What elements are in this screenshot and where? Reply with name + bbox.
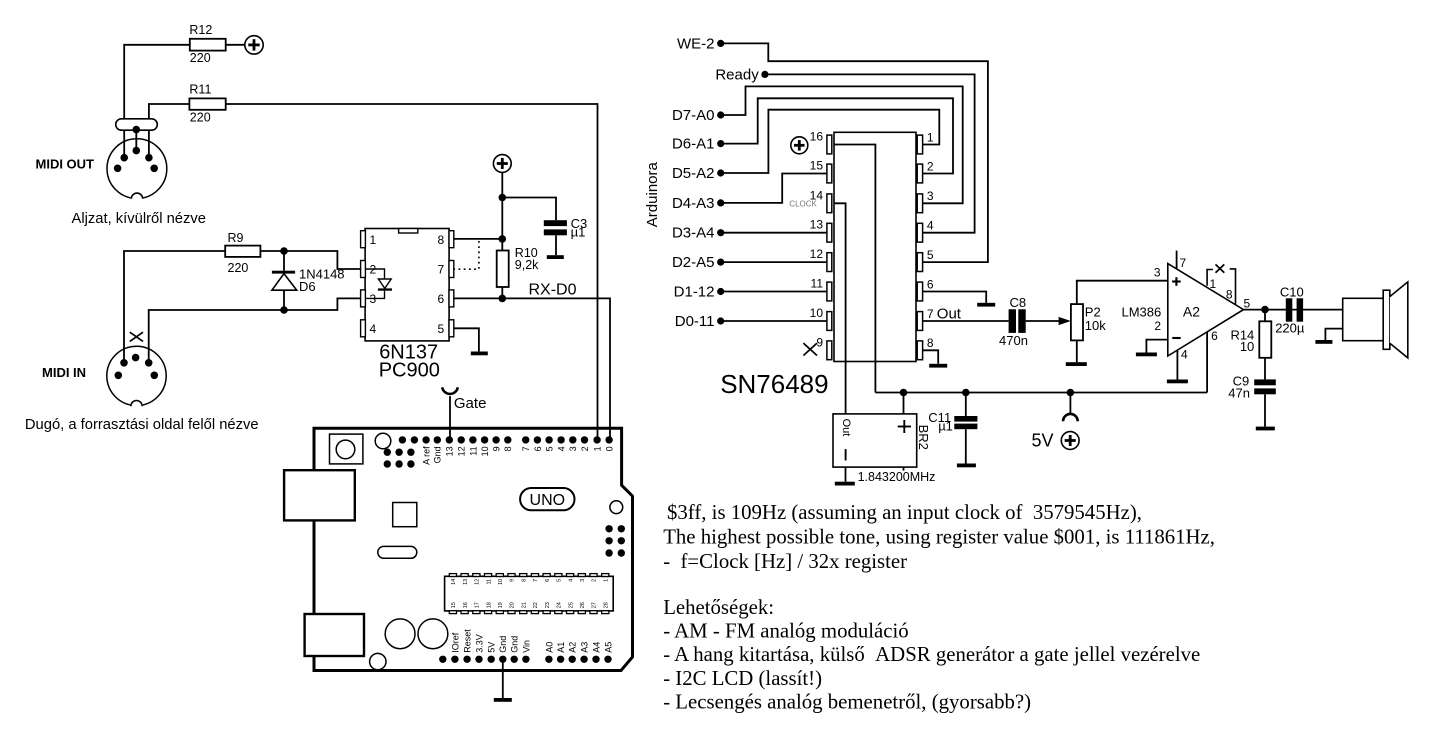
svg-text:5: 5	[1244, 296, 1251, 310]
svg-text:3: 3	[580, 579, 586, 582]
svg-text:Out: Out	[840, 419, 852, 437]
svg-text:D7-A0: D7-A0	[672, 107, 715, 124]
svg-text:D4-A3: D4-A3	[672, 195, 715, 212]
svg-text:- f=Clock [Hz] / 32x register: - f=Clock [Hz] / 32x register	[663, 550, 907, 573]
svg-text:A4: A4	[591, 642, 601, 653]
svg-text:13: 13	[445, 446, 455, 456]
svg-text:- Lecsengés analóg bemenetről,: - Lecsengés analóg bemenetről, (gyorsabb…	[663, 691, 1031, 714]
svg-text:3: 3	[568, 446, 578, 451]
svg-text:4: 4	[557, 446, 567, 451]
svg-text:24: 24	[557, 602, 563, 608]
svg-text:A2: A2	[1183, 304, 1200, 320]
svg-text:A3: A3	[580, 642, 590, 653]
svg-text:C8: C8	[1010, 295, 1027, 310]
svg-text:5: 5	[927, 248, 934, 262]
svg-text:R9: R9	[228, 231, 244, 245]
svg-text:A2: A2	[568, 642, 578, 653]
svg-text:220: 220	[190, 111, 211, 125]
svg-text:12: 12	[810, 247, 824, 261]
svg-text:SN76489: SN76489	[720, 369, 828, 399]
svg-text:UNO: UNO	[530, 492, 566, 509]
svg-text:BR2: BR2	[916, 425, 931, 450]
svg-text:16: 16	[810, 130, 824, 144]
svg-text:10: 10	[1240, 339, 1254, 354]
svg-text:14: 14	[451, 579, 457, 585]
svg-text:2: 2	[927, 159, 934, 173]
svg-text:µ1: µ1	[571, 225, 586, 240]
svg-text:8: 8	[521, 579, 527, 582]
svg-text:CLOCK: CLOCK	[789, 200, 817, 209]
svg-text:8: 8	[438, 233, 445, 247]
svg-text:1.843200MHz: 1.843200MHz	[858, 470, 936, 484]
svg-text:1: 1	[370, 233, 377, 247]
svg-text:20: 20	[510, 602, 516, 608]
svg-text:MIDI OUT: MIDI OUT	[36, 156, 95, 171]
svg-text:13: 13	[463, 579, 469, 585]
svg-text:17: 17	[475, 602, 481, 608]
svg-text:23: 23	[545, 602, 551, 608]
svg-text:9: 9	[816, 335, 823, 349]
svg-text:WE-2: WE-2	[677, 35, 715, 52]
svg-text:11: 11	[811, 277, 824, 291]
svg-text:47n: 47n	[1228, 386, 1250, 401]
svg-text:15: 15	[810, 159, 824, 173]
svg-text:C10: C10	[1280, 284, 1304, 299]
svg-text:R12: R12	[189, 23, 212, 37]
svg-text:RX-D0: RX-D0	[529, 281, 577, 298]
svg-text:The highest possible tone, usi: The highest possible tone, using registe…	[663, 526, 1215, 549]
svg-text:IOref: IOref	[450, 632, 460, 653]
svg-text:9: 9	[510, 579, 516, 582]
svg-text:10: 10	[498, 579, 504, 585]
svg-text:8: 8	[927, 336, 934, 350]
svg-text:4: 4	[1181, 348, 1188, 362]
svg-text:12: 12	[457, 446, 467, 456]
svg-text:5V: 5V	[1031, 431, 1053, 451]
svg-text:220µ: 220µ	[1275, 321, 1305, 336]
svg-text:5V: 5V	[487, 642, 497, 653]
svg-text:9: 9	[492, 446, 502, 451]
svg-text:- AM - FM analóg moduláció: - AM - FM analóg moduláció	[663, 620, 909, 643]
svg-text:R11: R11	[189, 83, 211, 97]
svg-text:1: 1	[927, 130, 934, 144]
svg-text:3: 3	[927, 189, 934, 203]
svg-text:4: 4	[927, 219, 934, 233]
svg-text:Gnd: Gnd	[433, 446, 443, 463]
svg-text:3.3V: 3.3V	[474, 634, 484, 653]
svg-text:220: 220	[228, 261, 249, 275]
svg-text:- A hang kitartása, külső ADS: - A hang kitartása, külső ADSR generátor…	[663, 643, 1200, 666]
svg-text:µ1: µ1	[938, 419, 953, 434]
svg-text:11: 11	[486, 579, 492, 585]
svg-text:16: 16	[463, 602, 469, 608]
svg-text:LM386: LM386	[1122, 304, 1162, 319]
svg-text:15: 15	[451, 602, 457, 608]
svg-text:Aljzat, kívülről nézve: Aljzat, kívülről nézve	[72, 211, 206, 227]
svg-text:10: 10	[810, 306, 824, 320]
svg-text:19: 19	[498, 602, 504, 608]
svg-text:Gnd: Gnd	[498, 636, 508, 653]
svg-text:$3ff, is 109Hz (assuming an in: $3ff, is 109Hz (assuming an input clock …	[667, 501, 1142, 524]
svg-text:D2-A5: D2-A5	[672, 254, 715, 271]
svg-text:28: 28	[603, 602, 609, 608]
svg-text:0: 0	[605, 446, 615, 451]
svg-text:Arduinora: Arduinora	[644, 162, 661, 228]
svg-text:Ready: Ready	[715, 66, 759, 83]
svg-text:Dugó, a forrasztási oldal felő: Dugó, a forrasztási oldal felől nézve	[25, 417, 259, 433]
svg-text:Gnd: Gnd	[510, 636, 520, 653]
svg-text:3: 3	[1154, 266, 1161, 280]
svg-text:7: 7	[1180, 256, 1187, 270]
svg-text:13: 13	[810, 218, 824, 232]
svg-text:5: 5	[545, 446, 555, 451]
svg-text:8: 8	[1226, 287, 1233, 301]
svg-text:D5-A2: D5-A2	[672, 165, 715, 182]
svg-text:D0-11: D0-11	[675, 313, 715, 330]
svg-text:7: 7	[438, 263, 445, 277]
svg-text:6: 6	[927, 277, 934, 291]
svg-text:Gate: Gate	[454, 395, 487, 412]
svg-text:D6: D6	[299, 279, 316, 294]
svg-text:1: 1	[593, 446, 603, 451]
svg-text:27: 27	[592, 602, 598, 608]
svg-text:21: 21	[521, 602, 527, 608]
svg-text:7: 7	[533, 579, 539, 582]
svg-text:2: 2	[592, 579, 598, 582]
svg-text:12: 12	[475, 579, 481, 585]
svg-text:1: 1	[603, 579, 609, 582]
svg-text:5: 5	[557, 579, 563, 582]
svg-text:7: 7	[521, 446, 531, 451]
svg-text:Reset: Reset	[463, 629, 473, 653]
svg-text:7: 7	[927, 307, 934, 321]
svg-text:6: 6	[533, 446, 543, 451]
svg-text:PC900: PC900	[379, 360, 440, 382]
svg-text:18: 18	[486, 602, 492, 608]
svg-text:6: 6	[438, 292, 445, 306]
svg-text:MIDI IN: MIDI IN	[42, 365, 86, 380]
svg-text:A0: A0	[544, 642, 554, 653]
svg-text:4: 4	[370, 322, 377, 336]
svg-text:5: 5	[438, 322, 445, 336]
svg-text:2: 2	[580, 446, 590, 451]
svg-text:6: 6	[1211, 329, 1218, 343]
svg-text:D6-A1: D6-A1	[672, 136, 715, 153]
svg-text:Vin: Vin	[521, 640, 531, 653]
svg-text:6: 6	[545, 579, 551, 582]
svg-text:11: 11	[468, 446, 478, 455]
svg-text:10: 10	[480, 446, 490, 456]
svg-text:D1-12: D1-12	[674, 283, 715, 300]
svg-text:9,2k: 9,2k	[515, 258, 539, 272]
svg-text:25: 25	[568, 602, 574, 608]
svg-text:A ref: A ref	[422, 446, 432, 465]
svg-text:P2: P2	[1085, 304, 1101, 319]
svg-text:26: 26	[580, 602, 586, 608]
svg-text:Lehetőségek:: Lehetőségek:	[663, 596, 774, 619]
svg-text:A5: A5	[603, 642, 613, 653]
svg-text:A1: A1	[556, 642, 566, 653]
svg-text:22: 22	[533, 602, 539, 608]
svg-text:10k: 10k	[1085, 318, 1106, 333]
svg-text:8: 8	[503, 446, 513, 451]
svg-text:220: 220	[190, 51, 211, 65]
svg-text:4: 4	[568, 579, 574, 582]
svg-text:Out: Out	[937, 305, 962, 322]
svg-text:- I2C LCD (lassít!): - I2C LCD (lassít!)	[663, 667, 822, 690]
svg-text:1: 1	[1210, 277, 1217, 291]
svg-text:470n: 470n	[999, 333, 1028, 348]
svg-text:D3-A4: D3-A4	[672, 225, 715, 242]
svg-text:2: 2	[1154, 319, 1161, 333]
